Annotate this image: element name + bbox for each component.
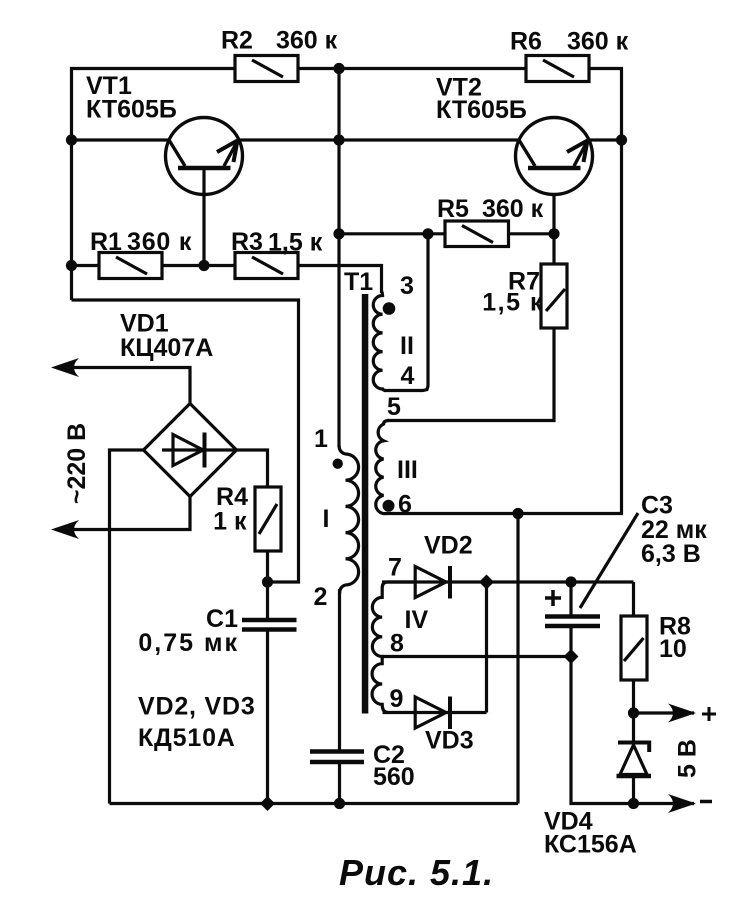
transformer winding I primary: [339, 445, 359, 594]
svg-text:I: I: [323, 505, 330, 533]
node C2 rail: [334, 798, 345, 809]
node left y140: [66, 134, 77, 145]
capacitor C1 0.75mk: [242, 618, 297, 623]
resistor R5 360k: [445, 221, 509, 247]
wire R7 bottom down and left to winding III pin5: [387, 328, 554, 421]
svg-text:1: 1: [314, 425, 328, 453]
wire VT2 base lead down to R7 top: [552, 195, 555, 264]
svg-text:9: 9: [390, 685, 404, 713]
wire C3 minus node down to minus rail: [571, 657, 694, 804]
resistor R6 360k: [526, 56, 589, 82]
wire row y140 left vertical to VT1: [72, 138, 170, 141]
svg-text:360 к: 360 к: [276, 27, 338, 55]
wire VT2 emitter to node right: [589, 138, 622, 141]
wire winding IV pin7 to VD2 anode: [382, 580, 634, 583]
svg-text:КТ605Б: КТ605Б: [86, 96, 177, 124]
arrowhead 220V top: [51, 358, 79, 377]
wire R5 to VT2 base node: [509, 232, 555, 235]
wire pin4 riser from node down and left to winding II: [384, 234, 428, 391]
wire winding III pin6 to node: [388, 512, 518, 515]
wire VT1 emitter to VT2 collector: [239, 138, 519, 141]
svg-text:1 к: 1 к: [213, 508, 247, 536]
svg-text:КС156А: КС156А: [544, 831, 637, 859]
arrowhead 220V bottom: [51, 520, 79, 539]
capacitor C2 560: [310, 749, 364, 754]
node R5 row / pin4 riser: [422, 228, 433, 239]
node y140 / x339: [333, 134, 344, 145]
node R4 bottom / C1: [262, 576, 273, 587]
node VT2 emitter / R6: [616, 134, 627, 145]
svg-text:III: III: [397, 456, 418, 484]
transformer winding III: [376, 421, 389, 514]
wire VT1 base lead down: [202, 169, 205, 266]
svg-text:~220 В: ~220 В: [63, 423, 91, 504]
transformer winding IV lower: [372, 657, 388, 713]
node C3 top: [565, 576, 576, 587]
plus sign of C3: [545, 590, 561, 606]
svg-text:5: 5: [387, 393, 401, 421]
wire tap8 to C3 minus node: [382, 655, 571, 658]
wire R4 bottom to C1 top: [266, 551, 269, 618]
svg-text:КД510А: КД510А: [138, 724, 236, 752]
wire VD4 anode down to minus rail node: [632, 776, 635, 804]
wire C3 bottom lead: [569, 628, 572, 657]
svg-text:2: 2: [314, 583, 328, 611]
capacitor C3 22mk electrolytic: [545, 614, 600, 619]
svg-text:R1: R1: [90, 228, 122, 256]
svg-text:560: 560: [373, 763, 415, 791]
wire plus node down to VD4 cathode: [632, 713, 635, 742]
wire pin6 node right and up to VT2 collector node: [518, 140, 622, 514]
wire C1 bottom to rail: [266, 632, 269, 804]
node top rail / x339: [333, 63, 344, 74]
node C3 bottom tap8: [564, 649, 579, 664]
node minus rail VD4: [628, 798, 639, 809]
resistor R8 10 vertical: [621, 616, 647, 680]
node C1 rail: [260, 796, 275, 811]
svg-text:II: II: [400, 332, 414, 360]
wire plus node to arrow: [634, 711, 695, 714]
svg-text:6: 6: [398, 491, 412, 519]
wire row y265 left vertical to R1: [72, 264, 100, 267]
svg-text:360 к: 360 к: [127, 228, 192, 256]
wire vertical x339 from top rail to winding I: [337, 69, 340, 448]
transformer T1 core: [362, 294, 369, 714]
svg-text:4: 4: [401, 362, 415, 390]
svg-text:R5: R5: [437, 195, 469, 223]
wire C3 top lead: [569, 582, 572, 615]
wire R2 to R6: [298, 67, 526, 70]
node VD2-VD3 cathodes: [479, 575, 494, 590]
diode bridge VD1 KTs407A: [144, 404, 237, 497]
svg-text:10: 10: [659, 635, 687, 663]
polarity dot winding I: [333, 459, 343, 469]
svg-text:R2: R2: [221, 27, 253, 55]
arrowhead minus output: [668, 794, 696, 813]
wire pin6 node down to bottom rail: [516, 514, 519, 804]
svg-text:VD2: VD2: [424, 532, 473, 560]
svg-text:0,75 мк: 0,75 мк: [138, 629, 239, 657]
node VT1 base / R1 R3: [198, 260, 209, 271]
polarity dot winding II: [383, 302, 396, 315]
wire bridge right vertex to R4 top: [236, 450, 268, 487]
node pin6 / collector riser: [512, 508, 523, 519]
minus sign output: [700, 800, 712, 804]
node left y265: [66, 260, 77, 271]
svg-text:6,3 В: 6,3 В: [641, 540, 701, 568]
wire row y234 node to R5: [339, 232, 445, 235]
svg-text:3: 3: [400, 272, 414, 300]
svg-text:5 В: 5 В: [674, 739, 702, 778]
wire bottom rail: [110, 802, 519, 805]
svg-text:VD2, VD3: VD2, VD3: [138, 693, 256, 721]
zener VD4 KS156A: [620, 745, 647, 775]
resistor R1 360k: [99, 253, 162, 279]
wire R6 right corner down to VT2 emitter node: [589, 69, 622, 141]
wire left loop y300 down x298 to C1 node: [72, 300, 299, 582]
wire winding I pin2 down to C2: [338, 589, 341, 750]
svg-text:360 к: 360 к: [482, 195, 544, 223]
svg-text:Рис. 5.1.: Рис. 5.1.: [339, 852, 494, 893]
svg-text:Т1: Т1: [344, 268, 373, 296]
svg-text:7: 7: [388, 554, 402, 582]
node VT2 base / R7: [548, 228, 559, 239]
diode VD3 KD510A: [415, 697, 446, 728]
wire 220V top arrow line to bridge top: [56, 368, 190, 404]
svg-text:360 к: 360 к: [567, 28, 629, 56]
node R5 row / x339: [333, 228, 344, 239]
plus sign output: [702, 707, 716, 721]
svg-text:1,5 к: 1,5 к: [268, 229, 323, 257]
svg-text:1,5 к: 1,5 к: [482, 289, 544, 317]
C3 pointer line: [580, 513, 638, 608]
node plus output: [628, 707, 639, 718]
transistor VT1 KT605B: [166, 118, 243, 195]
transformer winding II: [373, 291, 386, 391]
transistor VT2 KT605B: [516, 118, 593, 195]
wire 220V bottom arrow line to bridge bottom: [56, 497, 190, 530]
svg-text:VD3: VD3: [425, 727, 474, 755]
svg-text:8: 8: [390, 630, 404, 658]
wire R8 bottom to plus node: [632, 680, 635, 713]
transformer winding IV upper: [372, 582, 414, 657]
resistor R7 1.5k vertical: [541, 264, 567, 328]
wire VD2 cathode to R8 top corner: [632, 582, 635, 616]
wire R1 to R3: [162, 264, 235, 267]
svg-text:R6: R6: [510, 28, 542, 56]
resistor R4 1k vertical: [255, 487, 281, 551]
resistor R2 360k: [235, 56, 298, 82]
wire C2 bottom to rail: [338, 764, 341, 804]
wire R3 right to winding II pin3: [298, 266, 382, 294]
arrowhead plus output: [668, 704, 696, 723]
svg-text:R3: R3: [231, 228, 263, 256]
svg-text:КТ605Б: КТ605Б: [436, 96, 527, 124]
diode VD2 KD510A: [415, 567, 446, 598]
polarity dot winding III: [383, 500, 395, 512]
wire top rail left to R2: [72, 69, 236, 301]
resistor R3 1.5k: [235, 253, 298, 279]
wire VD3 cathode up to VD2 cathode node: [485, 582, 488, 713]
svg-text:КЦ407А: КЦ407А: [120, 334, 213, 362]
svg-text:IV: IV: [405, 606, 429, 634]
wire bridge left vertex to bottom rail: [110, 450, 145, 804]
wire winding IV pin9 to VD3 anode: [383, 711, 487, 714]
